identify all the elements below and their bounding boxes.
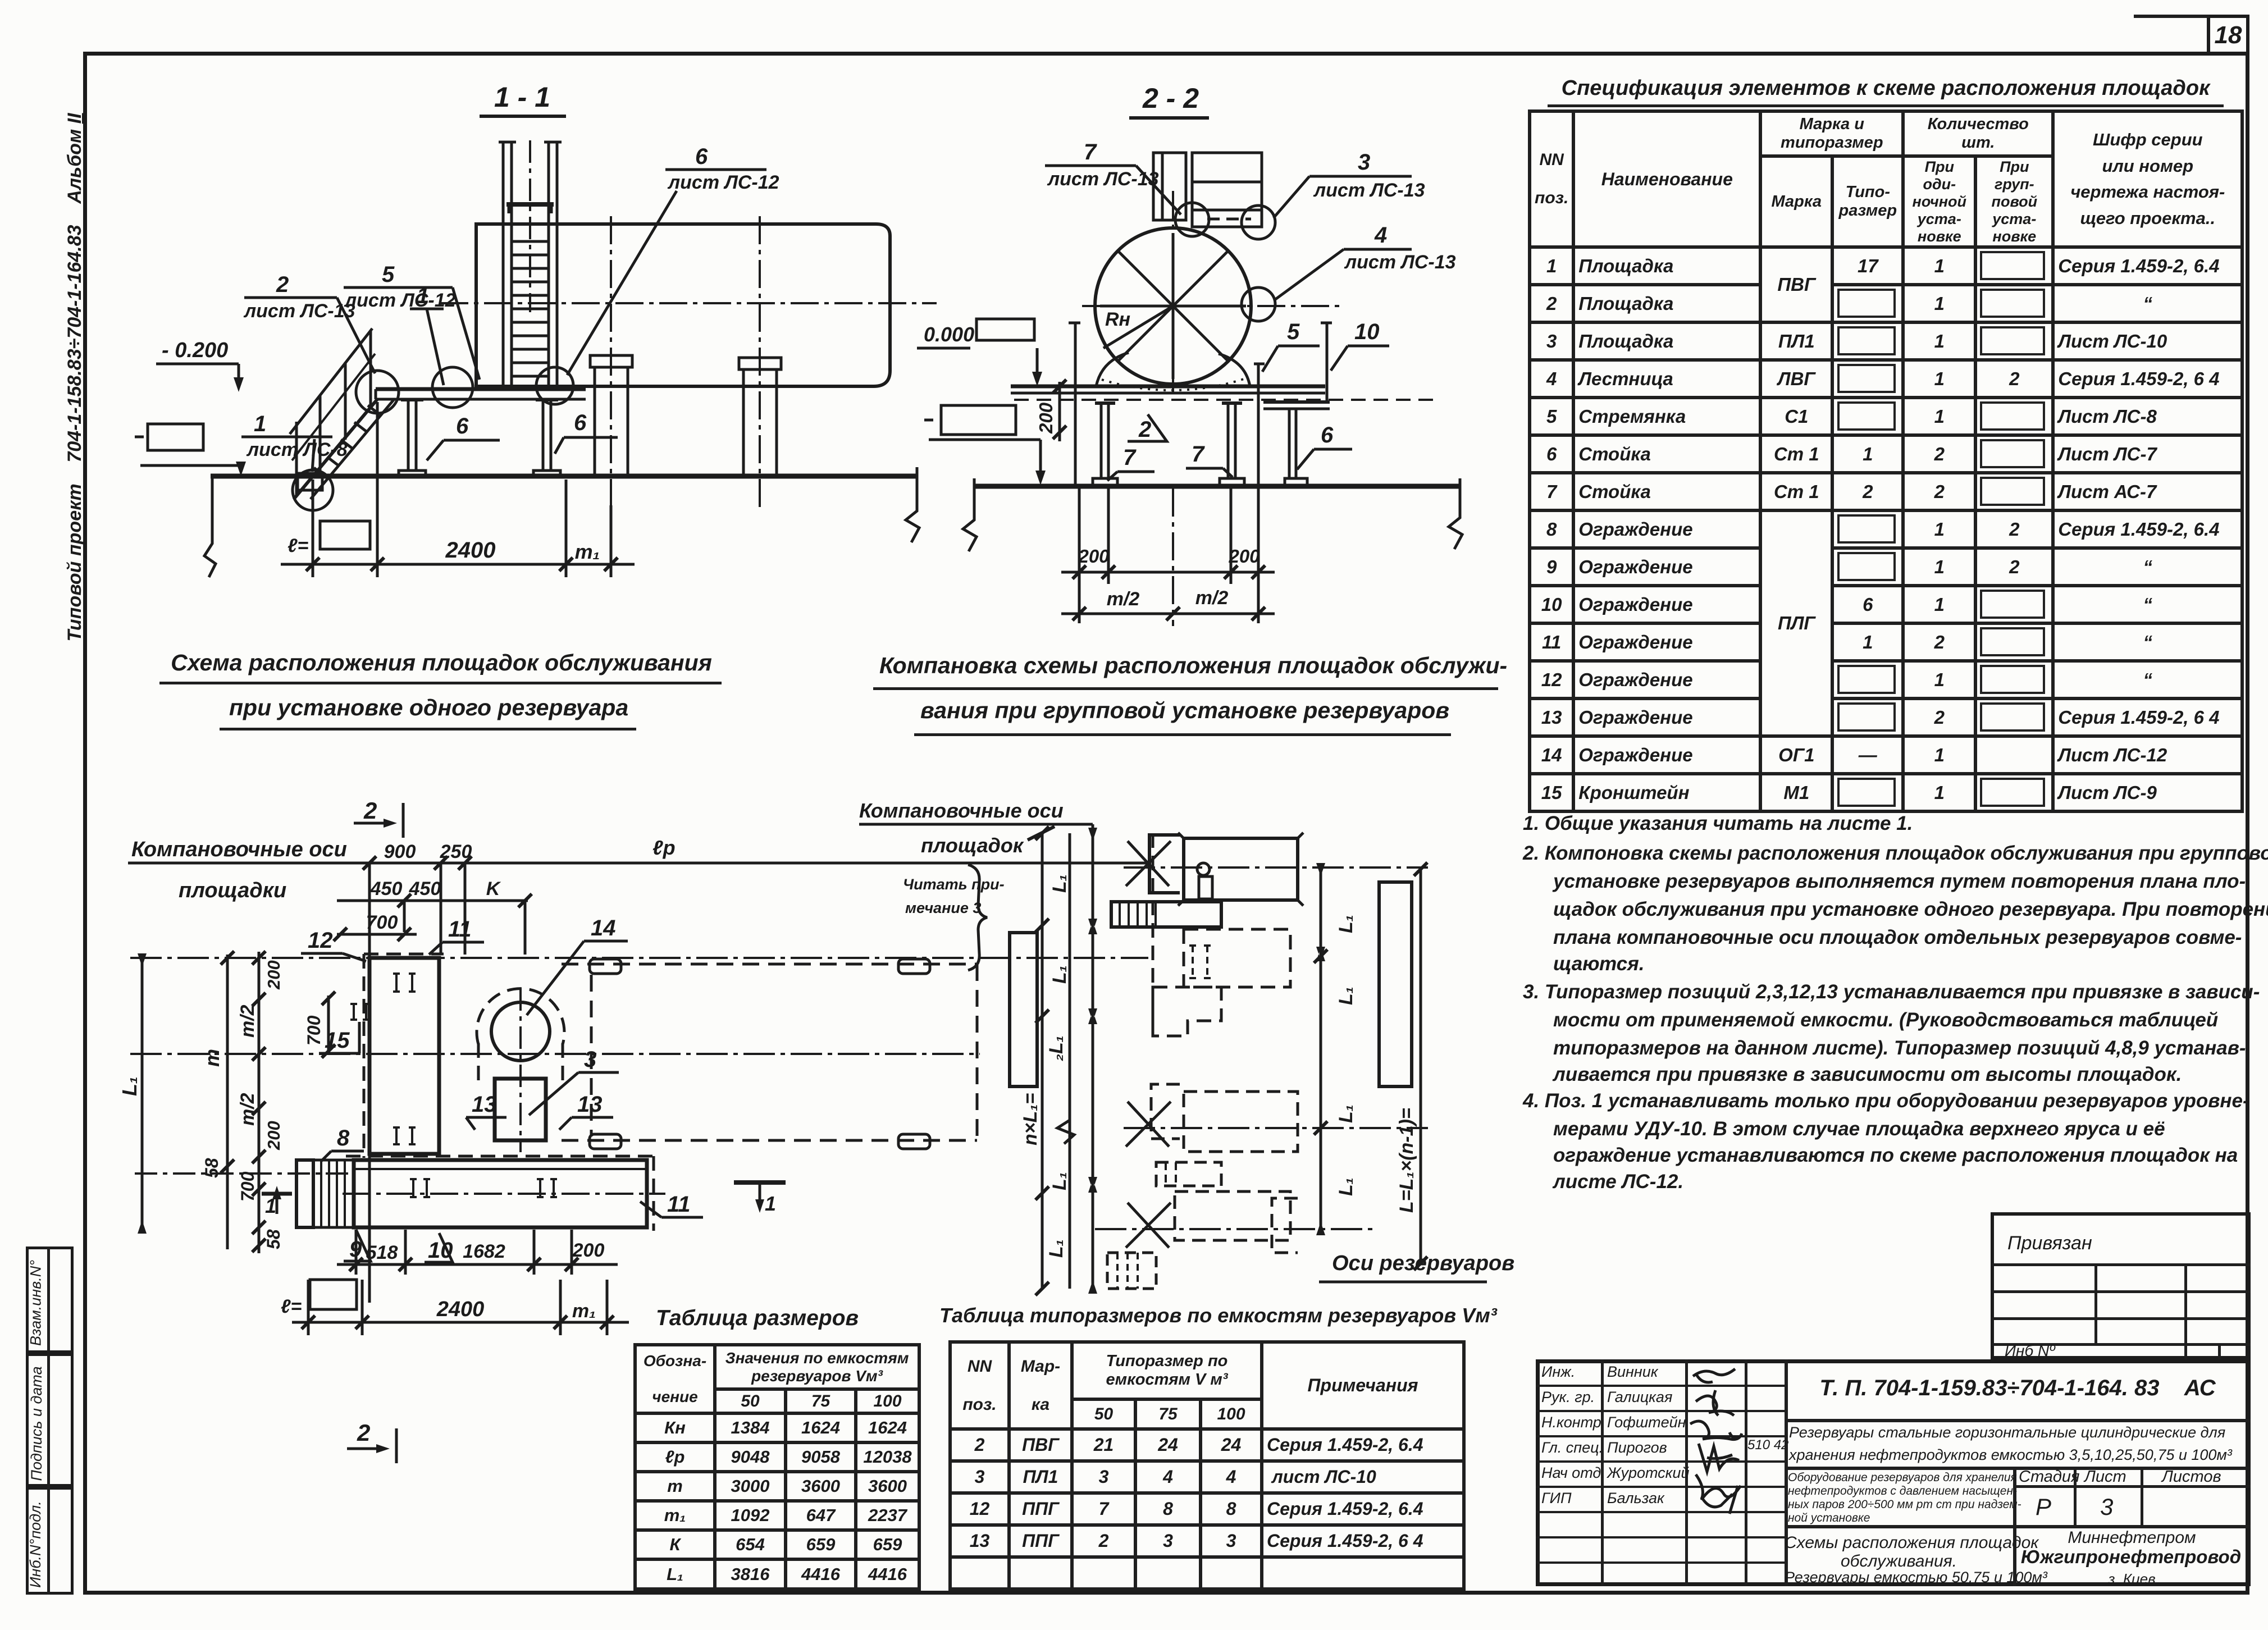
svg-text:2: 2 [1138, 417, 1151, 442]
manhole circle [491, 1002, 550, 1061]
svg-text:m: m [200, 1049, 223, 1067]
bottom dims [355, 1230, 358, 1275]
svg-text:L₁: L₁ [1046, 1239, 1067, 1258]
svg-text:мечание 3: мечание 3 [905, 900, 981, 916]
svg-text:4: 4 [1374, 223, 1387, 248]
svg-text:6: 6 [695, 144, 708, 169]
svg-text:1682: 1682 [463, 1241, 505, 1262]
tall platform pos12 [369, 958, 439, 1154]
svg-text:площадки: площадки [179, 879, 286, 902]
BOTTOM DRAWINGS: plan views [124, 780, 1505, 1348]
SPEC TABLE TITLE [1549, 76, 2223, 101]
section 1-1 label [480, 81, 566, 116]
labels 2-2 lower [1128, 414, 1167, 442]
signatures [1685, 1359, 1752, 1517]
svg-text:58: 58 [202, 1158, 222, 1178]
label 8 [321, 1126, 364, 1161]
detail circles 2-2 [1175, 203, 1209, 236]
svg-text:m₁: m₁ [575, 540, 600, 563]
saddle pillar 2 [739, 358, 781, 476]
label 9 [344, 1230, 371, 1262]
pos3 rect [495, 1079, 546, 1140]
svg-text:2: 2 [363, 797, 377, 824]
svg-text:m/2: m/2 [237, 1005, 258, 1038]
svg-text:Читать при-: Читать при- [903, 876, 1005, 893]
left chains group [1041, 833, 1044, 1289]
svg-text:L₁: L₁ [1049, 874, 1070, 893]
svg-text:8: 8 [337, 1126, 350, 1150]
NOTES [1523, 812, 1913, 835]
tank centerline [440, 302, 937, 304]
svg-text:900: 900 [384, 841, 416, 862]
svg-text:2: 2 [276, 272, 289, 297]
saddle pillar 1 [590, 355, 632, 476]
label 1 small above platform [410, 284, 444, 385]
svg-text:1: 1 [765, 1192, 776, 1215]
lower tank group (dashed) [1151, 1084, 1180, 1139]
label 7 / лист ЛС-13 [1045, 140, 1181, 214]
svg-text:2400: 2400 [445, 538, 496, 563]
svg-text:1: 1 [417, 284, 429, 308]
label 1 / лист ЛС-8 [241, 412, 348, 472]
svg-text:450: 450 [409, 878, 441, 900]
platform 1-1 [376, 387, 586, 391]
right part [1785, 1359, 1788, 1586]
svg-text:ℓ=: ℓ= [281, 1296, 302, 1317]
columns 2-2 [1093, 403, 1117, 485]
svg-text:10: 10 [1354, 319, 1380, 344]
svg-text:518: 518 [366, 1242, 398, 1263]
label 6 / лист ЛС-12 (top right) [567, 144, 779, 375]
right platform piece [1263, 400, 1330, 404]
label 11 top [429, 917, 484, 955]
svg-text:m₁: m₁ [572, 1300, 596, 1322]
svg-text:5: 5 [1287, 319, 1300, 344]
svg-text:лист ЛС-13: лист ЛС-13 [1344, 252, 1456, 273]
main axes dash-dot [130, 957, 1148, 959]
lower platform pos10/11 [354, 1160, 647, 1227]
svg-text:Компановочные оси: Компановочные оси [859, 799, 1064, 822]
svg-text:2400: 2400 [436, 1298, 485, 1321]
svg-text:L₁: L₁ [1049, 965, 1070, 984]
svg-text:58: 58 [263, 1229, 284, 1249]
personnel grid [1601, 1359, 1604, 1586]
I-beam column B [533, 400, 560, 477]
detail circles [293, 470, 333, 510]
svg-text:700: 700 [238, 1171, 258, 1202]
svg-text:0.000: 0.000 [924, 323, 974, 346]
stair flight [294, 399, 377, 499]
svg-text:площадок: площадок [921, 834, 1024, 857]
left dimension chains [141, 958, 144, 1229]
label 4 / лист ЛС-13 [1275, 223, 1456, 300]
svg-text:L₁: L₁ [1335, 1104, 1357, 1123]
svg-text:₂L₁: ₂L₁ [1046, 1035, 1067, 1061]
ladder above [1153, 153, 1186, 220]
svg-text:лист ЛС-13: лист ЛС-13 [1313, 180, 1425, 201]
svg-text:n×L₁=: n×L₁= [1020, 1093, 1041, 1145]
200 vert dimension [1035, 380, 1066, 441]
SPEC TABLE [1528, 109, 2244, 813]
svg-text:K: K [486, 878, 501, 900]
svg-text:m/2: m/2 [1107, 588, 1140, 610]
label 11 right [640, 1192, 703, 1217]
tank circle 2-2 [1095, 228, 1251, 384]
page number box 18 [2207, 15, 2249, 55]
stairs plan [296, 1160, 313, 1227]
svg-text:ℓр: ℓр [652, 836, 676, 859]
rect datum left [148, 424, 203, 450]
label 10 [425, 1233, 453, 1263]
svg-text:11: 11 [448, 917, 472, 942]
svg-text:1: 1 [265, 1194, 276, 1217]
tank 1-1 [476, 224, 890, 386]
svg-text:200: 200 [1035, 402, 1056, 434]
rect datum 2 [941, 405, 1016, 435]
svg-text:m/2: m/2 [237, 1093, 258, 1126]
svg-text:200: 200 [264, 1121, 284, 1150]
support frame 2-2 [1074, 323, 1077, 485]
700 vertical small dim [327, 996, 330, 1053]
centerlines 2-2 [1172, 191, 1174, 399]
svg-text:2: 2 [357, 1419, 370, 1446]
svg-text:L₁: L₁ [1049, 1172, 1070, 1190]
svg-text:6: 6 [456, 414, 469, 439]
extension verticals from top [368, 863, 371, 1303]
svg-text:1: 1 [254, 412, 266, 436]
svg-text:700: 700 [366, 912, 398, 933]
pillar centerlines [610, 216, 612, 508]
svg-text:L=L₁×(n-1)=: L=L₁×(n-1)= [1396, 1108, 1417, 1213]
T1 marker [734, 1182, 786, 1215]
LEFT MARGIN vertical text [64, 108, 97, 647]
svg-text:200: 200 [572, 1240, 605, 1261]
TOP DRAWINGS: sections 1-1 and 2-2 [140, 70, 1505, 632]
section marker 2 bottom [347, 1419, 396, 1463]
I-beam column A [399, 400, 426, 477]
label 12 [301, 928, 366, 961]
svg-text:7: 7 [1192, 442, 1205, 467]
label 5 and 10 [1262, 319, 1320, 372]
svg-text:2 - 2: 2 - 2 [1142, 83, 1199, 114]
svg-text:200: 200 [1228, 546, 1260, 567]
label 14 [527, 916, 628, 1015]
label 3 / лист ЛС-13 [1274, 150, 1425, 218]
label 2 / лист ЛС-13 [243, 272, 375, 373]
svg-text:5: 5 [382, 262, 395, 287]
svg-text:L₁: L₁ [118, 1076, 141, 1096]
PRIVYAZAN TABLE [1991, 1212, 2251, 1359]
svg-text:лист ЛС-8: лист ЛС-8 [246, 439, 348, 460]
top line lр [128, 862, 360, 865]
below ground dimensions 1-1 [312, 480, 314, 577]
svg-text:10: 10 [428, 1238, 453, 1263]
svg-text:ℓ=: ℓ= [288, 535, 309, 556]
svg-text:11: 11 [667, 1192, 691, 1217]
svg-text:6: 6 [574, 410, 587, 435]
svg-text:700: 700 [304, 1015, 324, 1045]
label 5 / лист ЛС-12 [344, 262, 480, 380]
platform 2-2 [1011, 385, 1325, 389]
-0.200 datum [156, 339, 244, 392]
svg-text:- 0.200: - 0.200 [162, 339, 228, 362]
svg-text:Компановочные оси: Компановочные оси [131, 838, 347, 861]
below ground dims 2-2 [1078, 488, 1081, 623]
section marker 2 top [354, 797, 403, 838]
svg-text:14: 14 [591, 916, 616, 940]
svg-text:6: 6 [1321, 423, 1334, 448]
svg-text:200: 200 [1078, 546, 1110, 567]
svg-text:L₁: L₁ [1335, 915, 1357, 933]
label 6 column A [427, 414, 500, 460]
svg-text:Rн: Rн [1105, 309, 1130, 330]
TABLE TIPORAZMEROV [939, 1304, 1497, 1327]
1 arrow marker [262, 1186, 292, 1217]
label 6 column B [555, 410, 618, 454]
TITLE BLOCK [1536, 1359, 2251, 1586]
upper tank group [1124, 866, 1428, 869]
dim 450 450 K [337, 900, 500, 902]
labels 13 13 [466, 1092, 506, 1130]
svg-text:L₁: L₁ [1335, 987, 1357, 1005]
svg-text:7: 7 [1084, 140, 1097, 165]
svg-text:450: 450 [370, 878, 403, 900]
svg-text:Оси резервуаров: Оси резервуаров [1332, 1252, 1514, 1275]
I-beam symbols inside [393, 974, 416, 992]
TABLE RAZMEROV title [656, 1306, 859, 1331]
svg-text:m/2: m/2 [1195, 587, 1229, 609]
label 15 [319, 1022, 359, 1053]
tank dashed outline [562, 963, 977, 966]
LEFT STAMP BOXES [26, 1247, 74, 1353]
svg-text:1 - 1: 1 - 1 [494, 81, 550, 113]
dashed platforms upper [1184, 929, 1290, 987]
ladder tower [502, 142, 505, 390]
svg-text:лист ЛС-12: лист ЛС-12 [667, 172, 779, 193]
stair plan group [1111, 902, 1221, 927]
svg-text:3: 3 [1358, 150, 1370, 175]
svg-text:15: 15 [325, 1028, 350, 1053]
saddle arc under circle [1096, 353, 1250, 386]
tall rect right [1379, 882, 1412, 1086]
label 3 [529, 1047, 619, 1115]
svg-text:L₁: L₁ [1335, 1177, 1357, 1196]
solid tall rect left [1010, 933, 1037, 1086]
ground 2-2 [974, 484, 1460, 489]
right chains group [1320, 867, 1322, 1231]
TITLES MIDDLE [166, 650, 717, 676]
svg-text:13: 13 [472, 1092, 497, 1117]
dim 700 [337, 933, 417, 936]
svg-text:12: 12 [308, 928, 333, 953]
svg-text:200: 200 [264, 960, 284, 990]
svg-text:7: 7 [1123, 445, 1137, 470]
svg-text:13: 13 [577, 1092, 603, 1117]
0.000 datum [917, 319, 1042, 386]
ground 1-1 [211, 474, 917, 479]
